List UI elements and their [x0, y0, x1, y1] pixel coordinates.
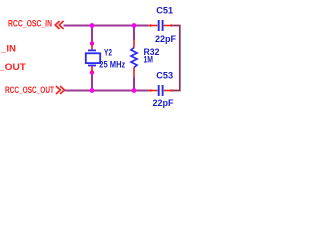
capacitor C53: [149, 85, 173, 96]
svg-text:RCC_OSC_IN: RCC_OSC_IN: [8, 17, 52, 28]
node junction top-resistor: [132, 23, 137, 28]
svg-text:C53: C53: [156, 70, 173, 81]
node junction bottom-crystal: [90, 88, 95, 93]
wire right rail: [173, 26, 180, 91]
port RCC_OSC_IN chevrons: [55, 21, 63, 29]
crystal Y2: [86, 44, 100, 73]
node junction bottom-resistor: [132, 88, 137, 93]
node crystal pin2 hotspot: [90, 70, 94, 74]
svg-text:_IN: _IN: [0, 43, 16, 54]
wire resistor bottom drop: [133, 77, 135, 91]
svg-text:22pF: 22pF: [155, 34, 176, 45]
wire crystal top drop: [91, 26, 93, 44]
port RCC_OSC_OUT chevrons: [56, 86, 64, 94]
capacitor C51: [149, 20, 173, 31]
svg-text:_OUT: _OUT: [0, 61, 26, 72]
svg-text:C51: C51: [156, 5, 173, 16]
svg-text:22pF: 22pF: [153, 98, 174, 109]
resistor R32: [131, 40, 137, 77]
wire top rail: [64, 25, 149, 27]
svg-text:RCC_OSC_OUT: RCC_OSC_OUT: [5, 84, 54, 95]
svg-text:Y2: Y2: [104, 48, 112, 59]
svg-text:25 MHz: 25 MHz: [99, 59, 125, 70]
wire crystal bottom drop: [91, 73, 93, 91]
wire bottom rail: [65, 90, 149, 92]
node crystal pin1 hotspot: [90, 41, 94, 45]
wire resistor top drop: [133, 26, 135, 41]
svg-text:1M: 1M: [144, 55, 154, 66]
node junction top-crystal: [90, 23, 95, 28]
